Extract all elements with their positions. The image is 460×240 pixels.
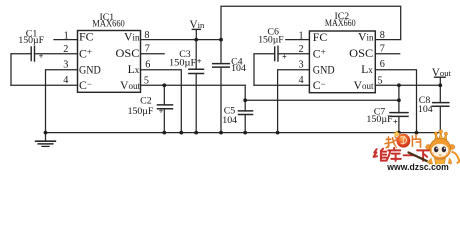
capacitor C3 branch wire lower: [195, 74, 197, 133]
node label Vin terminal: [190, 19, 205, 31]
svg-text:4: 4: [63, 75, 68, 86]
watermark dzsc logo 我-ball-片: [385, 131, 421, 148]
pin label IC1 C+: [79, 46, 92, 60]
svg-text:3: 3: [299, 60, 304, 71]
svg-text:104: 104: [222, 115, 237, 126]
polarity + C1: [39, 52, 44, 61]
pin number IC2 3: [299, 60, 304, 71]
pin number IC2 1: [299, 31, 304, 42]
junction dot rail C2: [162, 131, 166, 135]
pin number IC2 8: [380, 30, 385, 41]
wire top loop Vin to IC2 pin8: [221, 6, 401, 39]
junction dot Vin tick C3: [194, 38, 198, 42]
label MAX660 IC2: [325, 18, 356, 29]
wire IC1 pin7 OSC stub: [141, 53, 165, 55]
junction dot Vin rail C4 top loop: [219, 38, 223, 42]
pin label IC2 GND: [313, 63, 335, 77]
svg-text:Vout: Vout: [353, 78, 374, 92]
wire IC1 pin6 Lx to ground rail: [141, 70, 182, 133]
capacitor C3 plates: [189, 69, 204, 73]
junction dot C7 mid: [397, 98, 401, 102]
svg-text:104: 104: [418, 104, 433, 115]
watermark url www.dzsc.com: [386, 162, 449, 172]
capacitor C6 plates: [275, 46, 278, 61]
svg-text:Lx: Lx: [361, 62, 373, 76]
svg-text:6: 6: [380, 59, 385, 70]
pin label IC1 Lx: [128, 62, 140, 76]
polarity + C3: [197, 57, 202, 66]
label IC2: [335, 11, 350, 22]
capacitor C2 plates: [158, 105, 173, 109]
wire IC2 pin6 Lx to ground rail: [375, 70, 416, 133]
label MAX660 IC1: [92, 18, 125, 29]
svg-text:150µF: 150µF: [18, 35, 44, 46]
svg-text:8: 8: [144, 30, 149, 41]
pin label IC2 Vin: [358, 29, 374, 43]
capacitor C2 branch wire lower: [163, 109, 165, 133]
capacitor C4 branch wire lower: [220, 67, 222, 133]
svg-text:MAX660: MAX660: [92, 18, 125, 29]
pin label IC1 Vin: [124, 29, 140, 43]
wire IC2 pin3 GND to ground rail: [278, 70, 310, 133]
svg-text:3: 3: [63, 60, 68, 71]
value label C7: [366, 107, 393, 125]
pin label IC1 GND: [79, 63, 101, 77]
watermark text 维库一下: [374, 148, 430, 161]
pin number IC1 1: [64, 31, 69, 42]
pin number IC1 8: [144, 30, 149, 41]
junction dot C5 mid: [243, 98, 247, 102]
wire IC2 pin1 FC stub: [286, 39, 310, 41]
pin number IC1 3: [63, 60, 68, 71]
pin number IC1 7: [145, 43, 150, 54]
junction dot C2 top: [162, 83, 166, 87]
pin number IC1 6: [145, 59, 150, 70]
svg-text:150µF: 150µF: [258, 34, 284, 45]
svg-text:1: 1: [299, 31, 304, 42]
pin number IC2 2: [299, 44, 304, 55]
junction dot rail C3: [194, 131, 198, 135]
svg-text:C+: C+: [79, 46, 92, 60]
wire IC2 pin5 Vout: [375, 84, 440, 86]
value label C8: [418, 95, 433, 115]
svg-text:Vin: Vin: [190, 19, 205, 31]
svg-text:+: +: [282, 52, 287, 61]
value label C2: [128, 95, 154, 117]
capacitor C5 branch wire lower: [244, 115, 246, 133]
junction dot rail Lx2: [415, 131, 419, 135]
node label Vout terminal: [432, 67, 452, 79]
wire IC1 pin1 FC stub: [54, 39, 78, 41]
wire IC1 pin2 to C1 right plate: [35, 53, 78, 55]
pin label IC2 C+: [313, 46, 326, 60]
svg-text:FC: FC: [79, 30, 94, 44]
svg-text:OSC: OSC: [116, 46, 140, 60]
wire C6 left plate to C- pin4: [254, 54, 275, 86]
pin label IC2 OSC: [349, 46, 373, 60]
svg-text:150µF: 150µF: [169, 57, 197, 68]
capacitor C2 branch wire upper: [163, 85, 165, 105]
svg-text:5: 5: [144, 76, 149, 87]
svg-text:2: 2: [299, 44, 304, 55]
svg-text:C2: C2: [140, 95, 152, 106]
pin number IC1 5: [144, 76, 149, 87]
junction dot rail C4: [219, 131, 223, 135]
capacitor C7 branch wire upper: [398, 85, 400, 112]
pin number IC2 4: [299, 75, 304, 86]
capacitor C1 plates: [31, 46, 34, 61]
capacitor C3 branch wire upper: [195, 40, 197, 70]
svg-text:4: 4: [299, 75, 304, 86]
svg-text:2: 2: [63, 44, 68, 55]
polarity + C2: [159, 107, 164, 116]
junction dot rail C7: [397, 131, 401, 135]
pin label IC1 C-: [79, 78, 92, 92]
op-amp IC1 MAX660 box: [78, 31, 141, 93]
svg-text:104: 104: [231, 63, 246, 74]
svg-text:6: 6: [145, 59, 150, 70]
wire IC2 pin2 to C6 right plate: [278, 53, 309, 55]
svg-text:8: 8: [380, 30, 385, 41]
svg-text:Vin: Vin: [124, 29, 140, 43]
pin label IC1 Vout: [120, 78, 141, 92]
wire IC1 pin4 C-: [11, 84, 78, 86]
svg-text:GND: GND: [79, 63, 101, 77]
node Vout terminal: [435, 77, 446, 85]
capacitor C5 plates: [239, 111, 253, 115]
svg-text:7: 7: [380, 43, 385, 54]
watermark mascot: [409, 130, 460, 167]
svg-text:5: 5: [378, 76, 383, 87]
value label C1: [18, 29, 44, 46]
svg-text:Vout: Vout: [120, 78, 141, 92]
value label C5: [222, 106, 237, 127]
junction dot rail Lx1: [179, 131, 183, 135]
polarity + C6: [282, 52, 287, 61]
junction dot Vout terminal C8: [438, 83, 442, 87]
svg-text:OSC: OSC: [349, 46, 373, 60]
pin number IC2 5: [378, 76, 383, 87]
svg-text:Vin: Vin: [358, 29, 374, 43]
wire Vout1 node to C7 node: [245, 99, 399, 101]
svg-text:Vout: Vout: [432, 67, 452, 79]
wire IC2 pin7 OSC stub: [375, 53, 399, 55]
svg-text:+: +: [393, 117, 398, 126]
capacitor C7 plates: [390, 113, 408, 117]
pin label IC1 FC: [79, 30, 94, 44]
pin label IC1 OSC: [116, 46, 140, 60]
svg-text:150µF: 150µF: [128, 106, 154, 117]
node Vin terminal: [192, 29, 200, 39]
wire IC1 pin3 GND to ground rail: [46, 70, 78, 133]
svg-text:C−: C−: [313, 78, 326, 92]
capacitor C5 branch wire upper: [244, 85, 246, 111]
svg-text:www.dzsc.com: www.dzsc.com: [386, 162, 449, 172]
capacitor C8 branch wire upper: [439, 85, 441, 102]
svg-text:150µF: 150µF: [366, 114, 393, 125]
value label C3: [169, 49, 197, 68]
pin label IC2 Lx: [361, 62, 373, 76]
capacitor C8 branch wire lower: [439, 106, 441, 132]
value label C6: [258, 26, 284, 45]
capacitor C7 branch wire lower: [398, 116, 400, 132]
svg-text:+: +: [39, 52, 44, 61]
polarity + C7: [393, 117, 398, 126]
svg-text:C+: C+: [313, 46, 326, 60]
svg-text:+: +: [159, 107, 164, 116]
wire IC1 pin8 Vin rail: [141, 39, 222, 41]
pin label IC2 Vout: [353, 78, 374, 92]
svg-text:+: +: [197, 57, 202, 66]
svg-text:Lx: Lx: [128, 62, 140, 76]
pin number IC1 2: [63, 44, 68, 55]
svg-text:7: 7: [145, 43, 150, 54]
capacitor C8 plates: [433, 103, 449, 107]
pin number IC2 7: [380, 43, 385, 54]
wire C1 left plate to C- pin4: [11, 54, 31, 86]
svg-text:MAX660: MAX660: [325, 18, 356, 29]
ground rail: [46, 132, 441, 134]
label IC1: [100, 12, 115, 23]
svg-text:1: 1: [64, 31, 69, 42]
junction dot rail IC2 GND: [276, 131, 280, 135]
ground symbol: [36, 133, 56, 147]
wire IC1 pin5 Vout: [141, 84, 246, 86]
junction dot rail C5: [243, 131, 247, 135]
svg-text:FC: FC: [313, 30, 328, 44]
pin number IC2 6: [380, 59, 385, 70]
svg-text:GND: GND: [313, 63, 335, 77]
pin label IC2 FC: [313, 30, 328, 44]
wire IC2 pin4 C-: [254, 84, 309, 86]
value label C4: [231, 57, 246, 74]
op-amp IC2 MAX660 box: [309, 31, 375, 93]
pin label IC2 C-: [313, 78, 326, 92]
svg-text:C−: C−: [79, 78, 92, 92]
pin number IC1 4: [63, 75, 68, 86]
capacitor C4 branch wire upper: [220, 40, 222, 64]
junction dot IC2 Vout C7: [397, 83, 401, 87]
capacitor C4 plates: [213, 64, 230, 68]
junction dot ground symbol: [44, 131, 48, 135]
